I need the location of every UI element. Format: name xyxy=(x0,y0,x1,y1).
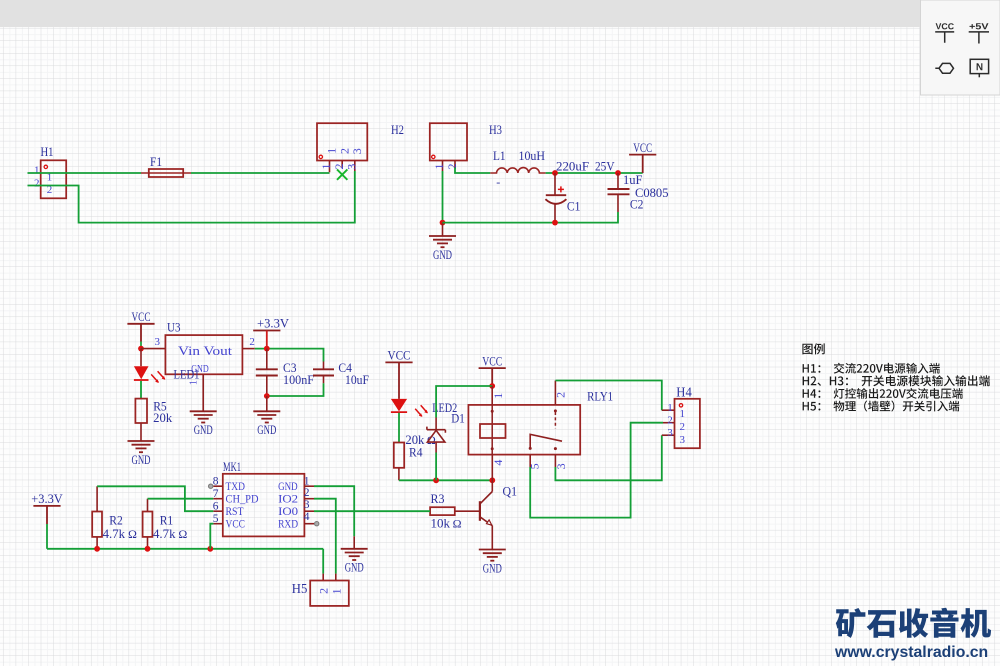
top toolbar strip xyxy=(0,0,1000,27)
connector H2 xyxy=(317,123,367,160)
capacitor C2 xyxy=(617,173,619,189)
node junction VCC/U3.3/LED1 xyxy=(138,346,144,352)
ground xyxy=(479,549,506,551)
resistor R5 xyxy=(135,399,147,423)
LED LED2 xyxy=(391,399,407,412)
ground xyxy=(190,410,217,412)
ground at H3.1 xyxy=(442,223,444,236)
svg-text:2: 2 xyxy=(316,588,330,594)
capacitor C4 xyxy=(323,362,325,370)
node junction C1 bottom xyxy=(552,220,558,226)
svg-text:10k: 10k xyxy=(431,517,451,531)
svg-text:RXD: RXD xyxy=(278,516,298,530)
node junction R1/rail xyxy=(145,546,151,552)
svg-text:2: 2 xyxy=(553,392,567,398)
connector H1 xyxy=(41,160,66,198)
ground at C3 xyxy=(266,396,268,411)
wire MK1.5 VCC to rail xyxy=(210,524,213,549)
svg-text:R1: R1 xyxy=(160,514,174,528)
svg-text:H2: H2 xyxy=(391,123,404,137)
svg-text:GND: GND xyxy=(132,453,151,467)
svg-text:2: 2 xyxy=(680,421,686,433)
diode D1 zener xyxy=(435,418,437,430)
svg-text:3: 3 xyxy=(155,336,161,348)
svg-text:2: 2 xyxy=(445,164,459,170)
svg-text:5: 5 xyxy=(213,513,219,525)
svg-text:1: 1 xyxy=(491,393,505,399)
wire R1 to MK1.7 CH_PD xyxy=(148,498,214,500)
panel VCC symbol xyxy=(935,32,989,77)
wire MK1.1 GND to ground xyxy=(314,486,354,536)
legend line H2 H3 xyxy=(803,375,990,386)
logo text xyxy=(836,608,991,638)
op-amp U3 regulator xyxy=(165,335,242,374)
node junction Q1 collector / RLY1.4 xyxy=(489,477,495,483)
floating symbol panel xyxy=(921,0,1000,95)
svg-text:C2: C2 xyxy=(630,198,644,212)
wire H3.1 down to junction xyxy=(442,171,444,223)
wire H1.2 to H2.3 xyxy=(28,171,355,223)
svg-text:H4: H4 xyxy=(676,386,692,401)
svg-text:+3.3V: +3.3V xyxy=(31,492,63,506)
svg-text:D1: D1 xyxy=(451,411,465,425)
node junction VCC/D1/RLY1.1 xyxy=(489,383,495,389)
no-connect X on H2.2 xyxy=(337,169,347,179)
ground xyxy=(253,410,280,412)
svg-text:4.7k: 4.7k xyxy=(103,527,126,541)
relay blade xyxy=(530,434,562,448)
svg-text:VCC: VCC xyxy=(388,349,411,363)
wire R2 to MK1.6 RST xyxy=(97,486,213,511)
legend line H4 xyxy=(803,388,963,399)
node junction D1 bottom xyxy=(433,477,439,483)
connector H3 xyxy=(430,123,467,160)
node junction H3.1/GND xyxy=(440,220,446,226)
svg-text:www.crystalradio.cn: www.crystalradio.cn xyxy=(834,644,988,661)
svg-text:H3: H3 xyxy=(489,123,502,137)
wire MK1.2 IO2 to H5.1 xyxy=(314,499,336,574)
wire C4 bottom to C3 bottom xyxy=(267,383,324,396)
node junction C2 top xyxy=(615,170,621,176)
RLY1 pin4 to junction xyxy=(491,455,493,481)
power VCC at RLY1.1 xyxy=(479,367,506,369)
svg-text:GND: GND xyxy=(483,561,502,575)
svg-text:4: 4 xyxy=(491,460,505,466)
svg-text:3: 3 xyxy=(667,427,673,439)
svg-text:2: 2 xyxy=(249,336,255,348)
svg-text:U3: U3 xyxy=(167,321,181,335)
svg-text:3: 3 xyxy=(680,434,686,446)
svg-text:Ω: Ω xyxy=(128,527,137,541)
wire +3.3V rail xyxy=(47,548,323,550)
svg-text:1uF: 1uF xyxy=(623,173,643,187)
RLY1 pin3 wire to H4.3 xyxy=(554,455,556,467)
no-connect MK1.8 xyxy=(209,484,213,488)
wire VCC junction to D1 top xyxy=(436,386,492,418)
svg-text:+3.3V: +3.3V xyxy=(257,317,289,331)
wire R4 to Q1 collector rail xyxy=(399,479,492,481)
svg-text:VCC: VCC xyxy=(633,141,652,155)
svg-text:VCC: VCC xyxy=(132,310,151,324)
svg-text:3: 3 xyxy=(350,148,364,154)
svg-text:Ω: Ω xyxy=(453,517,462,531)
svg-text:H1: H1 xyxy=(41,145,54,159)
node junction R2/rail xyxy=(94,546,100,552)
svg-text:1: 1 xyxy=(680,408,686,420)
resistor R2 xyxy=(92,512,102,537)
wire LED1 to R5 xyxy=(140,381,142,399)
power +3.3V at U3.2 xyxy=(253,330,280,332)
svg-text:10uF: 10uF xyxy=(345,373,369,387)
resistor R1 xyxy=(143,512,153,537)
relay contact dashed xyxy=(554,412,556,429)
node junction U3.2 xyxy=(264,346,270,352)
svg-text:10uH: 10uH xyxy=(519,149,546,163)
svg-text:-: - xyxy=(496,175,500,189)
ground xyxy=(128,440,155,442)
node junction MK1.5/rail xyxy=(207,546,213,552)
svg-text:20k: 20k xyxy=(153,411,173,425)
wire MK1.3 IO0 to R3 xyxy=(314,510,430,512)
power VCC at C2 xyxy=(642,155,644,173)
svg-text:Vin Vout: Vin Vout xyxy=(178,344,233,358)
wire F1 to H2.1 xyxy=(191,172,330,174)
svg-text:1: 1 xyxy=(330,588,344,594)
svg-text:LED1: LED1 xyxy=(174,367,200,381)
svg-text:1: 1 xyxy=(34,164,40,176)
legend title xyxy=(802,343,824,354)
svg-text:Q1: Q1 xyxy=(503,485,518,499)
svg-text:4: 4 xyxy=(304,511,310,523)
svg-text:GND: GND xyxy=(345,561,364,575)
svg-text:RLY1: RLY1 xyxy=(587,388,613,403)
wire LED2 to R4 xyxy=(398,413,400,443)
ground at U3.1 xyxy=(202,374,204,411)
svg-text:220uF: 220uF xyxy=(556,160,589,174)
svg-text:R2: R2 xyxy=(109,514,123,528)
svg-text:3: 3 xyxy=(304,499,310,511)
relay RLY1 xyxy=(468,405,580,455)
wire rail to H5.2 xyxy=(322,549,324,574)
svg-text:MK1: MK1 xyxy=(223,460,241,474)
node junction C3 bottom xyxy=(264,393,270,399)
legend line H1 xyxy=(803,363,940,374)
capacitor C3 xyxy=(266,349,268,370)
svg-text:100nF: 100nF xyxy=(283,373,314,387)
svg-text:C1: C1 xyxy=(567,200,581,214)
svg-text:25V: 25V xyxy=(595,160,615,174)
svg-text:GND: GND xyxy=(194,423,213,437)
ground xyxy=(341,548,368,550)
wire junction to C1/C2 bottom xyxy=(443,212,619,223)
wire U3.2 to +3.3V / C3 / C4 xyxy=(255,349,324,362)
power VCC at LED2 xyxy=(385,361,412,363)
svg-text:F1: F1 xyxy=(150,155,162,169)
RLY1 pin2 wire to H4.1 xyxy=(554,381,556,405)
svg-text:L1: L1 xyxy=(493,149,506,163)
svg-text:R3: R3 xyxy=(431,492,445,506)
wire to U3 pin3 xyxy=(141,348,165,350)
LED LED1 xyxy=(140,349,142,367)
svg-text:GND: GND xyxy=(257,423,276,437)
svg-text:R4: R4 xyxy=(409,446,423,460)
svg-text:2: 2 xyxy=(667,414,673,426)
wire H3.2 to L1 xyxy=(455,168,490,174)
capacitor C1 electrolytic xyxy=(554,173,556,195)
svg-text:6: 6 xyxy=(213,500,219,512)
legend line H5 xyxy=(803,401,960,412)
svg-text:7: 7 xyxy=(213,488,219,500)
wire L1 to VCC corner xyxy=(546,172,643,174)
svg-text:2: 2 xyxy=(304,487,310,499)
RLY1 pin5 wire to H4.2 xyxy=(529,455,531,467)
chip MK1 xyxy=(223,474,305,537)
resistor R4 xyxy=(394,443,404,468)
svg-text:H5: H5 xyxy=(292,582,308,597)
connector H5 xyxy=(310,581,349,606)
svg-text:VCC: VCC xyxy=(226,516,246,530)
svg-text:Ω: Ω xyxy=(178,527,187,541)
svg-text:2: 2 xyxy=(34,177,40,189)
svg-text:VCC: VCC xyxy=(482,354,502,368)
svg-text:GND: GND xyxy=(433,248,452,262)
connector H4 xyxy=(675,399,700,448)
ground xyxy=(429,235,456,237)
svg-text:1: 1 xyxy=(667,402,673,414)
power VCC at LED1 xyxy=(127,323,154,325)
inductor L1 xyxy=(490,168,545,173)
svg-text:4.7k: 4.7k xyxy=(153,527,176,541)
wire H1.1 to F1 xyxy=(28,172,142,174)
power +3.3V rail left xyxy=(33,505,60,507)
svg-text:1: 1 xyxy=(304,475,310,487)
svg-text:8: 8 xyxy=(213,475,219,487)
fuse F1 xyxy=(141,172,191,174)
node junction C1 top xyxy=(552,170,558,176)
no-connect MK1.4 xyxy=(315,522,319,526)
